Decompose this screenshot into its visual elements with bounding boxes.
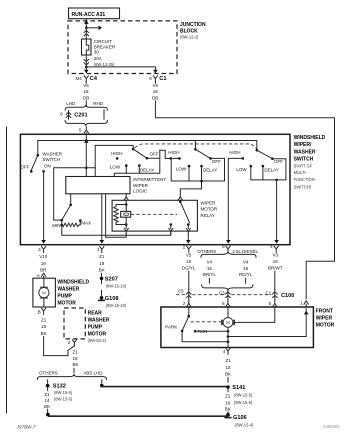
washer ON wire to pin 3 <box>43 171 45 240</box>
svg-text:V6: V6 <box>152 83 158 88</box>
ganged switch linkage (dashed) <box>135 144 257 149</box>
svg-text:20A: 20A <box>94 56 102 61</box>
park wire <box>182 331 228 342</box>
wire to wiper motor relay <box>180 189 201 197</box>
motor ground wire <box>227 327 229 347</box>
C201 upper brace <box>65 105 107 110</box>
wafer 2 delay junction <box>200 180 203 183</box>
svg-text:(8W-15-6): (8W-15-6) <box>54 396 73 401</box>
internal feed bus <box>38 141 257 156</box>
svg-text:WIPER/: WIPER/ <box>294 142 312 148</box>
svg-text:16: 16 <box>225 365 231 370</box>
svg-text:M4: M4 <box>76 76 83 81</box>
svg-text:OFF: OFF <box>21 164 30 169</box>
wafer 1 pivot <box>132 148 135 151</box>
wafer 3 LOW contact <box>250 165 253 168</box>
svg-text:BK: BK <box>99 268 105 273</box>
connector chevrons below circuit breaker <box>85 55 87 67</box>
svg-text:DELAY: DELAY <box>140 167 154 172</box>
svg-text:WINDSHIELD: WINDSHIELD <box>294 135 326 141</box>
svg-text:MOTOR: MOTOR <box>57 300 76 306</box>
pin 6 fork <box>226 303 230 306</box>
IWL wire to relay <box>125 194 127 197</box>
svg-text:V10: V10 <box>39 254 48 259</box>
svg-text:BK: BK <box>225 371 231 376</box>
relay coil pin (bottom) <box>125 225 127 229</box>
RUN contact <box>194 330 197 333</box>
wire to delay potentiometer <box>54 168 95 220</box>
svg-text:BR/WT: BR/WT <box>268 266 283 271</box>
svg-text:BK: BK <box>225 407 231 412</box>
power feed box RUN-ACC A31 <box>69 8 120 19</box>
junction node feed/IWL <box>85 166 88 169</box>
svg-text:BK: BK <box>41 331 47 336</box>
svg-text:DELAY: DELAY <box>264 167 278 172</box>
wafer 3 blade to OFF <box>257 150 273 159</box>
svg-text:2.5L DIESEL: 2.5L DIESEL <box>232 249 258 254</box>
svg-text:16: 16 <box>273 259 279 264</box>
wire pin4 to C100-C1 <box>274 271 276 289</box>
svg-text:(8W-53-3): (8W-53-3) <box>88 338 107 343</box>
C201 lower brace <box>65 120 107 125</box>
relay output wire to pin 2 <box>187 234 189 240</box>
wire S132 to G106 wire <box>47 387 49 390</box>
branch wire with arrow (feed to other circuits) <box>86 27 97 29</box>
ground wire to G106 <box>48 415 228 417</box>
svg-text:XJ05301: XJ05301 <box>323 424 340 429</box>
svg-text:M: M <box>42 290 46 295</box>
svg-text:ABS LHD: ABS LHD <box>83 371 103 376</box>
svg-text:DG/YL: DG/YL <box>182 266 196 271</box>
svg-text:SWITCH: SWITCH <box>294 157 314 163</box>
motor brush wire to pin 5 <box>234 307 275 323</box>
svg-text:BR: BR <box>40 268 47 273</box>
park contact <box>181 330 184 333</box>
wafer 3 output junction <box>275 179 278 182</box>
svg-text:MIN: MIN <box>52 223 60 228</box>
wafer 2 blade to OFF <box>195 149 210 158</box>
ABS LHD splice <box>100 384 104 388</box>
svg-text:18: 18 <box>99 261 105 266</box>
svg-text:(8W-12-2): (8W-12-2) <box>180 34 199 39</box>
svg-text:Z1: Z1 <box>225 393 231 398</box>
variant split brace <box>201 251 256 257</box>
page edge line <box>6 127 8 413</box>
relay pole pin (bottom) <box>170 225 172 229</box>
wafer 3 HIGH wire to pin 6 <box>228 158 243 240</box>
svg-text:RD/YL: RD/YL <box>239 272 253 277</box>
svg-text:OFF: OFF <box>150 151 159 156</box>
variant merge brace <box>202 285 253 291</box>
wafer 3 pivot <box>255 149 258 152</box>
wafer 3 DELAY contact <box>262 165 265 168</box>
svg-text:S132: S132 <box>53 384 66 390</box>
svg-text:M: M <box>226 320 230 325</box>
relay coil pin (top) <box>124 197 128 200</box>
wire to C1 <box>86 67 155 70</box>
wafer 2 contact bus <box>171 158 225 181</box>
svg-text:BR/YL: BR/YL <box>203 272 217 277</box>
svg-text:MAX: MAX <box>81 220 91 225</box>
connector chevrons above circuit breaker <box>84 30 89 32</box>
wafer 3 HIGH contact <box>242 157 245 160</box>
circuit breaker (30, 20A) <box>82 39 92 55</box>
svg-text:LOGIC: LOGIC <box>133 189 148 194</box>
svg-text:V4: V4 <box>207 259 213 264</box>
wafer 2 OFF contact <box>209 157 212 160</box>
svg-text:RHD: RHD <box>93 101 103 106</box>
svg-text:Z1: Z1 <box>73 349 79 354</box>
wafer 2 feed <box>194 141 196 150</box>
wire to pin 4 <box>276 180 278 241</box>
wiper switch wafer 1 feed path <box>95 145 133 149</box>
svg-text:FRONT: FRONT <box>316 308 333 314</box>
wire pin2 to C100-C5 <box>188 271 190 289</box>
wire from C1 down and right to page edge <box>154 82 156 83</box>
svg-text:LHD: LHD <box>66 101 76 106</box>
junction node below circuit breaker <box>85 66 88 69</box>
svg-text:C1: C1 <box>159 76 166 82</box>
svg-text:C3: C3 <box>219 291 225 296</box>
potentiometer wire to relay <box>62 225 171 235</box>
delay potentiometer resistor <box>61 224 64 227</box>
svg-text:C4: C4 <box>90 76 98 82</box>
svg-text:Z1: Z1 <box>225 358 231 363</box>
IWL wire to relay coil <box>106 194 127 237</box>
svg-text:WASHER: WASHER <box>294 149 316 155</box>
svg-text:MOTOR: MOTOR <box>88 331 107 337</box>
svg-text:OFF: OFF <box>212 159 221 164</box>
svg-text:B: B <box>38 309 41 314</box>
svg-text:HIGH: HIGH <box>229 150 240 155</box>
svg-text:C5: C5 <box>178 289 184 294</box>
svg-text:V6: V6 <box>83 83 89 88</box>
svg-text:OTHERS: OTHERS <box>197 249 216 254</box>
svg-text:WINDSHIELD: WINDSHIELD <box>57 279 89 285</box>
wire from C4 to C201 <box>85 82 87 83</box>
svg-text:INTERMITTENT: INTERMITTENT <box>133 177 166 182</box>
svg-text:MOTOR: MOTOR <box>316 323 335 329</box>
wire to S132 <box>47 380 49 383</box>
junction block (dashed) <box>68 21 177 74</box>
windshield washer pump motor symbol <box>43 278 45 287</box>
svg-text:LOW: LOW <box>110 164 121 169</box>
pin 2 fork <box>187 303 191 306</box>
wire to ABS splice <box>101 380 103 383</box>
washer pump ground wire <box>44 337 68 356</box>
svg-text:(8W-15-5): (8W-15-5) <box>234 392 253 397</box>
wire ABS to S141 <box>102 386 227 388</box>
park switch feed <box>188 307 190 316</box>
svg-text:A: A <box>37 273 40 278</box>
svg-text:18: 18 <box>153 89 159 94</box>
relay contact B <box>187 223 190 226</box>
wafer 3 contact bus <box>251 159 286 180</box>
wafer 2 DELAY contact <box>200 165 203 168</box>
svg-text:Z1: Z1 <box>44 392 50 397</box>
wire to C4 <box>85 67 87 70</box>
svg-text:S207: S207 <box>105 277 118 283</box>
wafer 1 contact bus <box>114 158 159 176</box>
svg-text:DB: DB <box>83 95 89 100</box>
feed wire to motor pin 1 <box>306 261 334 299</box>
wafer 1 HIGH contact <box>116 157 119 160</box>
park switch blade <box>182 316 189 331</box>
svg-text:J97BW-7: J97BW-7 <box>16 424 36 429</box>
svg-text:(8W-15-10): (8W-15-10) <box>106 303 127 308</box>
svg-text:C100: C100 <box>281 293 294 299</box>
svg-text:C201: C201 <box>74 113 87 119</box>
svg-text:RELAY: RELAY <box>201 213 215 218</box>
svg-text:V4: V4 <box>243 259 249 264</box>
svg-text:REAR: REAR <box>88 310 103 316</box>
wire S141 to G106 <box>227 389 229 392</box>
svg-text:(8W-12-25): (8W-12-25) <box>94 62 115 67</box>
svg-text:MULTI-: MULTI- <box>294 170 308 175</box>
svg-text:WIPER: WIPER <box>316 316 333 322</box>
svg-text:16: 16 <box>207 266 213 271</box>
svg-text:S141: S141 <box>232 385 245 391</box>
feed wire entering switch <box>85 133 87 141</box>
run wire <box>195 330 228 332</box>
washer switch blade <box>31 155 38 170</box>
C100 connector line (dashed) <box>176 294 271 296</box>
wire from RUN-ACC A31 into junction block <box>85 19 87 28</box>
svg-text:V5: V5 <box>186 253 192 258</box>
svg-text:BK: BK <box>44 404 50 409</box>
left ground junction <box>46 413 50 417</box>
pin 1 wire inside motor <box>304 311 309 315</box>
svg-text:HIGH: HIGH <box>168 150 179 155</box>
wafer 2 HIGH row <box>165 157 179 159</box>
wafer 1 blade to OFF <box>133 149 147 158</box>
svg-text:16: 16 <box>225 400 231 405</box>
relay blade <box>180 202 189 223</box>
splice S132 <box>46 384 50 388</box>
svg-text:30: 30 <box>94 49 100 54</box>
svg-text:Z1: Z1 <box>99 254 105 259</box>
svg-text:18: 18 <box>83 89 89 94</box>
svg-text:LOW: LOW <box>176 166 187 171</box>
svg-text:LOW: LOW <box>236 167 247 172</box>
svg-text:G108: G108 <box>105 296 119 302</box>
wafer 2 pivot <box>194 148 197 151</box>
wafer 1 DELAY contact <box>138 164 141 167</box>
ground G106 <box>226 413 230 417</box>
svg-text:SWITCH): SWITCH) <box>294 184 312 189</box>
svg-text:14: 14 <box>44 398 50 403</box>
svg-text:C1: C1 <box>265 291 271 296</box>
svg-text:SWITCH: SWITCH <box>42 157 60 162</box>
wafer 3 OFF contact <box>271 157 274 160</box>
svg-text:DELAY: DELAY <box>203 167 217 172</box>
svg-text:DB: DB <box>152 95 158 100</box>
motor armature <box>227 307 229 318</box>
svg-text:(8W-15-5): (8W-15-5) <box>54 390 73 395</box>
svg-text:18: 18 <box>41 261 47 266</box>
svg-text:HIGH: HIGH <box>111 151 122 156</box>
svg-text:JUNCTION: JUNCTION <box>180 22 206 28</box>
variant branch stubs <box>208 278 210 283</box>
svg-text:PUMP: PUMP <box>88 324 103 330</box>
svg-text:16: 16 <box>186 259 192 264</box>
relay contact A <box>170 223 173 226</box>
relay contact pin (bottom) <box>187 225 189 229</box>
svg-text:(8W-15-4): (8W-15-4) <box>235 423 254 428</box>
splice S141 <box>226 385 230 389</box>
junction node under A31 <box>85 27 88 30</box>
combined ground wire <box>73 368 75 373</box>
svg-text:Z1: Z1 <box>41 318 47 323</box>
svg-text:V3: V3 <box>273 253 279 258</box>
windshield washer pump motor box <box>33 278 56 307</box>
svg-text:ON: ON <box>44 163 51 168</box>
svg-text:FUNCTION: FUNCTION <box>294 177 315 182</box>
wafer 1 OFF contact <box>146 157 149 160</box>
relay coil <box>125 205 127 212</box>
svg-text:(PART OF: (PART OF <box>294 163 313 168</box>
ground G108 <box>100 296 104 300</box>
svg-text:WIPER: WIPER <box>133 183 149 188</box>
splice S207 <box>100 277 104 281</box>
park linkage (dashed) <box>191 321 222 323</box>
relay coil resistor <box>114 205 126 225</box>
svg-text:G106: G106 <box>233 415 247 421</box>
svg-text:WIPER: WIPER <box>201 200 217 205</box>
svg-text:MOTOR: MOTOR <box>201 207 218 212</box>
relay switch pin (top) <box>178 197 182 200</box>
delay potentiometer blade <box>61 219 64 222</box>
rear washer pump ground wire <box>68 346 74 356</box>
wire S207 to G108 <box>101 280 103 283</box>
svg-text:WASHER: WASHER <box>88 317 110 323</box>
relay linkage (dashed) <box>131 213 177 215</box>
wire to S207 <box>101 273 103 276</box>
svg-text:OTHERS: OTHERS <box>39 371 58 376</box>
wiper motor relay box <box>112 200 197 231</box>
svg-text:WASHER: WASHER <box>42 152 62 157</box>
washer switch ON contact <box>42 170 45 173</box>
pin 5 fork <box>273 303 277 306</box>
front wiper motor box <box>161 307 314 348</box>
feed junction node <box>85 139 88 142</box>
svg-text:18: 18 <box>73 356 79 361</box>
rear washer pump motor box (dashed) <box>64 308 85 339</box>
svg-text:WASHER: WASHER <box>57 286 79 292</box>
washer switch pivot <box>37 154 40 157</box>
wafer 1 LOW contact <box>125 164 128 167</box>
svg-text:RUN-ACC A31: RUN-ACC A31 <box>72 12 106 18</box>
svg-text:(8W-15-6): (8W-15-6) <box>234 400 253 405</box>
wafer 2 LOW contact <box>188 165 191 168</box>
windshield wiper/washer switch box <box>20 134 290 244</box>
IWL ground wire to pin 1 <box>101 194 103 241</box>
svg-text:OFF: OFF <box>274 159 283 164</box>
svg-text:BK: BK <box>73 362 79 367</box>
washer switch OFF contact <box>30 170 33 173</box>
ground split brace <box>37 374 106 380</box>
wafer 2 HIGH contact <box>169 157 172 160</box>
intermittent wiper logic box <box>66 177 130 194</box>
svg-text:18: 18 <box>41 324 47 329</box>
svg-text:16: 16 <box>243 266 249 271</box>
svg-text:(8W-15-10): (8W-15-10) <box>106 283 127 288</box>
svg-text:PUMP: PUMP <box>57 293 72 299</box>
wire to S141 <box>227 377 229 382</box>
svg-text:PARK: PARK <box>165 325 177 330</box>
